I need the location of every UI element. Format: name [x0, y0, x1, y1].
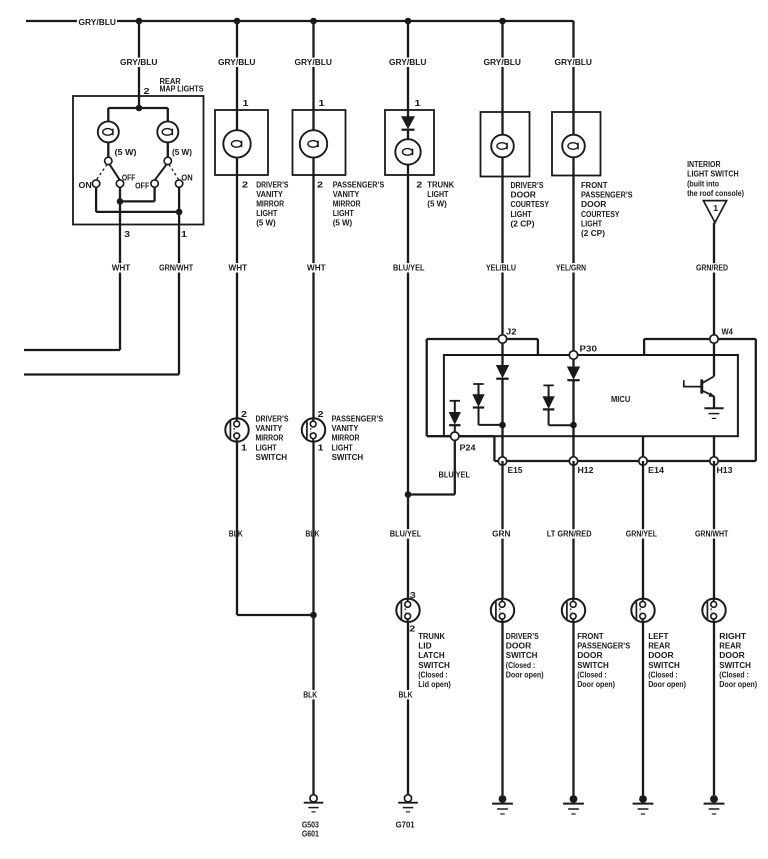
- svg-text:DRIVER’S: DRIVER’S: [256, 414, 289, 424]
- svg-text:(built into: (built into: [687, 178, 719, 188]
- svg-text:1: 1: [243, 98, 249, 108]
- svg-text:Lid open): Lid open): [418, 679, 451, 689]
- svg-text:GRY/BLU: GRY/BLU: [79, 17, 117, 27]
- svg-text:1: 1: [415, 98, 421, 108]
- svg-text:2: 2: [144, 86, 150, 96]
- svg-text:ON: ON: [79, 180, 92, 190]
- svg-text:(Closed :: (Closed :: [506, 660, 536, 670]
- svg-text:LIGHT: LIGHT: [256, 208, 278, 218]
- svg-text:BLK: BLK: [399, 689, 414, 699]
- svg-text:LIGHT: LIGHT: [581, 218, 603, 228]
- svg-text:1: 1: [319, 98, 325, 108]
- svg-text:WHT: WHT: [229, 263, 248, 273]
- svg-text:LT GRN/RED: LT GRN/RED: [547, 529, 592, 539]
- svg-text:(5 W): (5 W): [172, 147, 192, 157]
- svg-text:WHT: WHT: [112, 263, 131, 273]
- svg-text:2: 2: [318, 409, 324, 419]
- svg-text:OFF: OFF: [122, 173, 135, 183]
- svg-text:(5 W): (5 W): [427, 198, 447, 208]
- svg-text:BLU/YEL: BLU/YEL: [390, 529, 422, 539]
- svg-text:GRN/WHT: GRN/WHT: [695, 529, 729, 539]
- svg-text:REAR: REAR: [719, 641, 742, 651]
- svg-text:DRIVER’S: DRIVER’S: [256, 179, 288, 189]
- svg-text:MIRROR: MIRROR: [256, 198, 285, 208]
- svg-text:LID: LID: [418, 641, 432, 651]
- svg-text:SWITCH: SWITCH: [506, 650, 538, 660]
- svg-text:BLU/YEL: BLU/YEL: [393, 263, 425, 273]
- svg-text:DOOR: DOOR: [719, 650, 745, 660]
- svg-text:GRY/BLU: GRY/BLU: [484, 57, 522, 67]
- svg-text:(Closed :: (Closed :: [719, 669, 749, 679]
- svg-text:W4: W4: [722, 327, 734, 337]
- svg-text:MIRROR: MIRROR: [256, 433, 285, 443]
- svg-text:GRN/WHT: GRN/WHT: [159, 263, 194, 273]
- svg-text:MAP LIGHTS: MAP LIGHTS: [160, 84, 204, 94]
- svg-text:LIGHT: LIGHT: [256, 442, 278, 452]
- svg-text:BLK: BLK: [303, 689, 318, 699]
- svg-text:MIRROR: MIRROR: [333, 198, 362, 208]
- svg-text:TRUNK: TRUNK: [418, 631, 446, 641]
- svg-text:REAR: REAR: [648, 641, 671, 651]
- svg-text:VANITY: VANITY: [256, 423, 283, 433]
- svg-text:LIGHT: LIGHT: [332, 442, 354, 452]
- svg-text:FRONT: FRONT: [581, 180, 608, 190]
- svg-text:SWITCH: SWITCH: [332, 452, 364, 462]
- svg-text:GRY/BLU: GRY/BLU: [295, 57, 333, 67]
- svg-text:P24: P24: [460, 443, 476, 453]
- svg-text:OFF: OFF: [135, 180, 149, 190]
- svg-text:GRN/YEL: GRN/YEL: [626, 529, 657, 539]
- svg-text:DOOR: DOOR: [577, 650, 603, 660]
- svg-text:2: 2: [416, 179, 422, 189]
- svg-text:SWITCH: SWITCH: [648, 660, 680, 670]
- svg-text:DOOR: DOOR: [581, 199, 607, 209]
- svg-text:DOOR: DOOR: [511, 190, 537, 200]
- svg-text:(2 CP): (2 CP): [511, 218, 535, 228]
- svg-text:(Closed :: (Closed :: [648, 669, 678, 679]
- svg-text:GRY/BLU: GRY/BLU: [218, 57, 256, 67]
- svg-text:WHT: WHT: [307, 263, 326, 273]
- svg-text:SWITCH: SWITCH: [719, 660, 751, 670]
- svg-text:(5 W): (5 W): [333, 218, 353, 228]
- svg-text:GRY/BLU: GRY/BLU: [120, 57, 158, 67]
- svg-text:YEL/BLU: YEL/BLU: [486, 263, 516, 273]
- svg-text:LEFT: LEFT: [648, 631, 669, 641]
- svg-text:GRY/BLU: GRY/BLU: [389, 57, 427, 67]
- svg-text:2: 2: [409, 623, 415, 633]
- svg-text:DRIVER’S: DRIVER’S: [511, 180, 544, 190]
- svg-text:LIGHT: LIGHT: [511, 209, 533, 219]
- svg-text:LATCH: LATCH: [418, 650, 444, 660]
- svg-text:DRIVER’S: DRIVER’S: [506, 631, 539, 641]
- svg-text:COURTESY: COURTESY: [581, 209, 620, 219]
- svg-text:E15: E15: [508, 465, 523, 475]
- svg-text:Door open): Door open): [719, 679, 757, 689]
- svg-text:(5 W): (5 W): [115, 147, 137, 157]
- svg-text:P30: P30: [580, 344, 598, 354]
- svg-text:FRONT: FRONT: [577, 631, 604, 641]
- svg-text:2: 2: [241, 409, 247, 419]
- svg-text:VANITY: VANITY: [333, 189, 360, 199]
- svg-text:Door open): Door open): [506, 669, 544, 679]
- svg-text:E14: E14: [648, 465, 664, 475]
- svg-text:LIGHT SWITCH: LIGHT SWITCH: [687, 169, 739, 179]
- svg-text:PASSENGER’S: PASSENGER’S: [332, 414, 384, 424]
- svg-text:Door open): Door open): [648, 679, 686, 689]
- svg-text:PASSENGER’S: PASSENGER’S: [577, 641, 630, 651]
- svg-text:the roof console): the roof console): [687, 188, 744, 198]
- svg-text:VANITY: VANITY: [256, 189, 283, 199]
- svg-text:YEL/GRN: YEL/GRN: [556, 263, 586, 273]
- svg-text:VANITY: VANITY: [332, 423, 359, 433]
- svg-text:GRY/BLU: GRY/BLU: [555, 57, 593, 67]
- svg-text:(5 W): (5 W): [256, 218, 276, 228]
- svg-text:LIGHT: LIGHT: [333, 208, 355, 218]
- svg-text:1: 1: [713, 203, 718, 213]
- svg-text:SWITCH: SWITCH: [418, 660, 450, 670]
- svg-text:ON: ON: [181, 173, 192, 183]
- svg-text:3: 3: [124, 229, 130, 239]
- svg-text:DOOR: DOOR: [506, 641, 532, 651]
- svg-text:SWITCH: SWITCH: [256, 452, 288, 462]
- svg-text:H13: H13: [717, 465, 733, 475]
- svg-text:G601: G601: [302, 829, 319, 839]
- svg-text:J2: J2: [506, 327, 517, 337]
- svg-text:2: 2: [242, 179, 248, 189]
- svg-text:GRN/RED: GRN/RED: [696, 263, 728, 273]
- svg-text:(Closed :: (Closed :: [577, 669, 607, 679]
- svg-text:2: 2: [317, 179, 323, 189]
- svg-text:PASSENGER’S: PASSENGER’S: [581, 190, 633, 200]
- svg-text:BLU/YEL: BLU/YEL: [439, 469, 471, 479]
- svg-text:MICU: MICU: [611, 394, 630, 404]
- svg-text:H12: H12: [578, 465, 594, 475]
- svg-text:1: 1: [318, 443, 324, 453]
- svg-text:RIGHT: RIGHT: [719, 631, 747, 641]
- svg-text:(Closed :: (Closed :: [418, 669, 448, 679]
- svg-text:GRN: GRN: [492, 529, 510, 539]
- svg-text:DOOR: DOOR: [648, 650, 674, 660]
- svg-text:(2 CP): (2 CP): [581, 228, 605, 238]
- svg-text:1: 1: [181, 229, 187, 239]
- svg-text:TRUNK: TRUNK: [427, 179, 455, 189]
- svg-text:INTERIOR: INTERIOR: [687, 159, 721, 169]
- svg-text:1: 1: [241, 443, 247, 453]
- svg-text:G701: G701: [396, 820, 415, 830]
- svg-text:SWITCH: SWITCH: [577, 660, 609, 670]
- svg-text:COURTESY: COURTESY: [511, 199, 550, 209]
- svg-text:MIRROR: MIRROR: [332, 433, 361, 443]
- svg-text:PASSENGER’S: PASSENGER’S: [333, 179, 385, 189]
- svg-text:LIGHT: LIGHT: [427, 189, 449, 199]
- svg-text:Door open): Door open): [577, 679, 615, 689]
